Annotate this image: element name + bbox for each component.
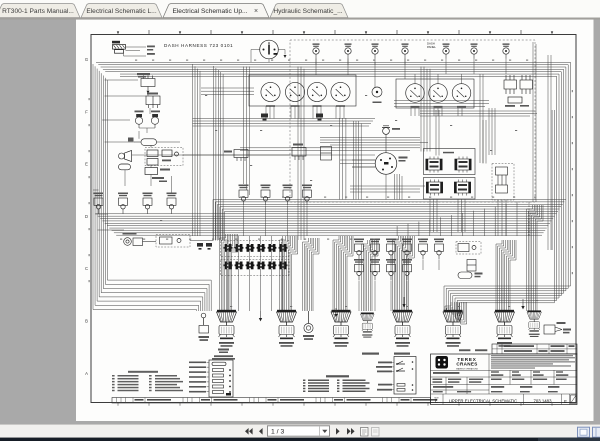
toggle switch S15 [418, 239, 428, 260]
title block notes text [491, 355, 575, 368]
lamp-to-gauge stub wires [316, 59, 462, 88]
svg-text:A: A [85, 371, 88, 376]
diode module D1 [467, 260, 476, 272]
instrument cluster box left [249, 75, 356, 106]
svg-text:G: G [85, 57, 88, 62]
ignition key switch S1 [260, 40, 279, 59]
relay K3 [145, 168, 170, 183]
relay K10 [224, 150, 248, 162]
relay K11 [292, 144, 306, 161]
relay module box K2 group [145, 148, 183, 166]
toggle switch S6 [239, 185, 249, 206]
frame zone letters left margin [85, 57, 88, 376]
gear-in-neutral wire labels [376, 362, 392, 391]
title: DASH HARNESS 723 0101 [164, 43, 233, 48]
toggle switch S20 [402, 259, 412, 280]
title block data rows [433, 371, 569, 392]
toggle switch S8 [283, 185, 293, 206]
bulkhead connector P7 [393, 310, 413, 347]
relay K1 with label [137, 73, 155, 94]
light switch S10 rotary [375, 153, 407, 175]
svg-text:×: × [254, 8, 258, 15]
toggle switch S3 [118, 193, 128, 214]
tab: Electrical Schematic L [81, 4, 162, 18]
revision history table [492, 344, 577, 354]
flasher F3 capsule [458, 272, 483, 279]
tab: Electrical Schematic Up (active) [163, 4, 269, 18]
frame zone tick marks bottom [118, 403, 552, 406]
toggle switch S12 [370, 239, 380, 260]
svg-text:Electrical Schematic Up...: Electrical Schematic Up... [172, 8, 247, 15]
gauge G8 [452, 84, 471, 108]
fuel sender above light switch [382, 126, 400, 153]
bulkhead connector P9 [495, 310, 515, 347]
relay K9 [454, 180, 470, 196]
page number combo box [268, 426, 330, 436]
wire bus: left vertical harness bundle [93, 64, 211, 311]
tab bar background [0, 0, 600, 18]
svg-text:RT300-1 Parts Manual...: RT300-1 Parts Manual... [2, 8, 74, 15]
left column inter-component wires [125, 94, 290, 193]
relay K7 K8 pair top right [504, 75, 533, 107]
svg-text:1 / 3: 1 / 3 [271, 429, 284, 436]
nav prev-page button [259, 428, 263, 435]
small plugs left of connector rows [197, 243, 212, 250]
wire bus: right margin descent into lower connectors [444, 250, 571, 311]
svg-text:E: E [564, 399, 567, 404]
toggle switch S17 [354, 259, 364, 280]
toggle switch S9 [302, 185, 312, 206]
nav next-page button [336, 428, 340, 435]
relay drop wires to band [430, 199, 529, 236]
Terex Cranes title text [456, 357, 478, 371]
wire bus: central horizontal harness band [96, 200, 567, 241]
ground arrow D [402, 297, 405, 307]
gauge G4 [331, 82, 350, 106]
cab harness connector P11 [544, 322, 571, 334]
svg-text:CRANES: CRANES [456, 362, 477, 367]
transmission legend text block [303, 375, 370, 392]
title block outline [431, 354, 578, 405]
horn H1 [135, 111, 144, 129]
toggle switch S14 [402, 239, 412, 260]
svg-text:UPPER ELECTRICAL SCHEMATIC: UPPER ELECTRICAL SCHEMATIC [449, 398, 518, 403]
single page layout icon [578, 427, 590, 437]
gauge feed bus under cluster [193, 88, 376, 126]
gear-in-neutral wire label leader lines [392, 362, 394, 389]
svg-text:D: D [85, 214, 88, 219]
ground arrow B [334, 308, 337, 317]
toggle switch S4 [143, 193, 153, 214]
ignition mesh wiring [132, 55, 551, 250]
toggle switch S11 [354, 239, 364, 260]
drawing title text [449, 398, 518, 403]
ground arrow A [259, 311, 262, 321]
gauge G7 [429, 84, 448, 108]
warning lamp row DS1-DS7 [313, 43, 510, 58]
revision letter cell [564, 395, 576, 404]
gauge G1 [261, 82, 280, 106]
tab: RT300-1 Parts Manual [0, 4, 80, 18]
battery feed connector BAT1 [112, 41, 126, 53]
wire bus: band corner staircase right [397, 202, 517, 236]
ground stud connector P1 [199, 313, 210, 341]
relay K4 [426, 157, 442, 173]
nav last-page button [347, 428, 355, 435]
toggle switch S16 [434, 239, 444, 260]
frame zone tick marks top [117, 30, 553, 35]
bulkhead connector P10 [527, 310, 541, 337]
wire number labels speckle [89, 60, 573, 307]
svg-text:E: E [85, 162, 88, 167]
svg-text:E: E [435, 399, 438, 404]
auxiliary relay pair dashed box [492, 164, 514, 201]
tab: Hydraulic Schematic [270, 4, 348, 18]
gauge sender drop wires [266, 106, 462, 119]
small gauge G5 [372, 87, 382, 103]
toggle switch S13 [386, 239, 396, 260]
svg-text:PANEL: PANEL [427, 45, 436, 49]
crane lever position diagram [209, 349, 235, 398]
svg-text:F: F [85, 109, 88, 114]
crane lever legend labels [189, 362, 209, 393]
svg-text:703 1483: 703 1483 [534, 398, 553, 403]
harness inline connector row J1 [221, 241, 290, 257]
svg-text:WAVERLY OPERATIONS: WAVERLY OPERATIONS [456, 367, 478, 370]
wire bus: left bundle branch stubs [93, 80, 146, 230]
wires from battery connector [124, 47, 147, 56]
next view icon (disabled) [372, 428, 380, 437]
toggle switch S7 [261, 185, 271, 206]
relay K12 [321, 147, 332, 161]
svg-text:C: C [85, 266, 88, 271]
nav first-page button [245, 428, 253, 435]
relay K6 [426, 180, 442, 196]
sheet scale note left of revision table [459, 349, 487, 351]
resistor module R1 [146, 93, 160, 109]
capsule component F2 [119, 164, 131, 170]
horn common wire [139, 128, 155, 133]
svg-text:B: B [85, 319, 88, 324]
ground arrow C [521, 299, 524, 309]
bulkhead connector P5 [331, 310, 351, 347]
connector row through wires [227, 236, 282, 311]
svg-text:SIZE: SIZE [434, 397, 439, 399]
work light connector with ring terminal [123, 233, 157, 246]
wire bundle key switch column [244, 67, 250, 196]
bulkhead connector P8 [443, 310, 463, 347]
harness inline connector row J2 [221, 260, 290, 276]
white document page [76, 20, 594, 421]
gear-in-neutral switch diagram [362, 353, 416, 395]
long harness verticals [298, 42, 536, 240]
toggle switch S2 [94, 193, 104, 214]
svg-text:Electrical Schematic L...: Electrical Schematic L... [86, 8, 157, 15]
key switch wires [251, 50, 287, 63]
wire bundle at zone 5 vertical [193, 64, 201, 236]
gauge harness plugs under cluster [261, 114, 323, 121]
toggle switch S18 [370, 259, 380, 280]
round connector P4 [303, 311, 314, 340]
Terex logo [436, 356, 449, 369]
window bottom dark strip [0, 438, 600, 441]
drawing border frame [91, 35, 576, 403]
horn H2 [151, 111, 160, 129]
bulkhead connector P3 [277, 310, 297, 347]
previous view icon [361, 428, 369, 437]
battery wire labels [147, 46, 155, 55]
relay bank enclosure boxes [424, 149, 476, 200]
svg-text:DASH HARNESS 723 0101: DASH HARNESS 723 0101 [164, 43, 233, 48]
svg-text:Hydraulic Schematic_...: Hydraulic Schematic_... [273, 8, 342, 15]
bulkhead connector P2 [217, 310, 237, 347]
dash panel dashed enclosure [290, 40, 535, 202]
gauge G3 [307, 82, 326, 106]
light switch wires [340, 160, 386, 200]
relay K5 [455, 157, 471, 173]
bottom toolbar [0, 425, 600, 438]
wire bundle feeding instrument cluster [214, 66, 224, 240]
facing page layout icon (clipped) [593, 427, 600, 437]
wire table strip along bottom border [112, 398, 437, 404]
tab bar bottom separator [0, 18, 600, 20]
hourmeter module dashed [156, 235, 214, 248]
flasher F1 capsule [128, 138, 180, 146]
wiring mesh right of dash panel [350, 67, 489, 193]
drawing number [534, 398, 553, 403]
switch module dashed box S21 [456, 242, 481, 255]
toggle switch S5 [167, 193, 177, 214]
instrument cluster box right [396, 79, 474, 108]
harness drops to bulkhead connectors [220, 205, 544, 324]
warning lamp drop wires [316, 59, 506, 75]
bulkhead connector P6 (small) [361, 313, 375, 338]
gauge G6 [406, 84, 425, 108]
main wire bus: top harness run wrapping right margin [96, 62, 571, 250]
turn signal legend text block [112, 371, 183, 391]
gauge G2 [285, 82, 304, 106]
drawing size letter [434, 397, 439, 403]
back-up alarm speaker LS1 [119, 151, 132, 162]
toggle switch S19 [386, 259, 396, 280]
